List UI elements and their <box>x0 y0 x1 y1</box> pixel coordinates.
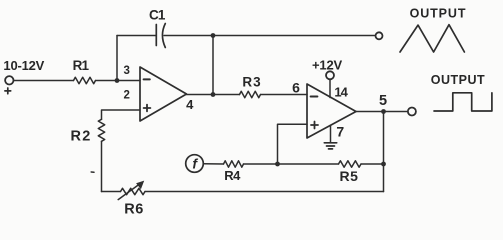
wire pin 7 to ground <box>330 125 332 143</box>
U2 inverting input minus <box>311 96 318 98</box>
R6 arrow <box>118 181 144 200</box>
ground <box>324 143 336 149</box>
svg-text:C1: C1 <box>149 8 166 23</box>
triangle waveform <box>400 25 464 52</box>
wire junction down to op-amp U1 output <box>212 36 214 95</box>
svg-text:5: 5 <box>379 93 387 109</box>
wire R1 to op-amp pin 3 <box>96 80 141 82</box>
svg-text:R2: R2 <box>71 129 92 145</box>
wire R2 down to bottom rail <box>101 141 103 191</box>
terminal: 10-12V input <box>5 76 13 84</box>
wire input terminal to R1 <box>14 80 74 82</box>
terminal: square wave output <box>408 108 416 116</box>
terminal: f frequency input <box>186 155 204 173</box>
terminal: triangle wave output <box>376 32 383 39</box>
svg-text:OUTPUT: OUTPUT <box>410 6 467 20</box>
node: R4/R5 junction <box>275 162 280 167</box>
svg-text:10-12V: 10-12V <box>3 58 44 73</box>
svg-text:OUTPUT: OUTPUT <box>431 73 485 87</box>
op-amp U1 <box>140 67 187 121</box>
node: R5 right junction <box>381 162 386 167</box>
svg-text:R5: R5 <box>340 168 359 184</box>
wire C1 to triangle output terminal <box>164 35 375 37</box>
wire feedback vertical riser <box>116 36 118 81</box>
node: pin 5 junction <box>381 109 386 114</box>
capacitor C1 <box>156 24 165 48</box>
resistor R3 <box>240 91 261 97</box>
wire bottom rail left <box>102 191 121 193</box>
wire junction up to U2 plus input <box>278 124 308 164</box>
U1 inverting input minus <box>144 78 150 80</box>
resistor R2 <box>98 119 104 141</box>
svg-text:R4: R4 <box>224 168 241 183</box>
resistor R4 <box>224 161 244 167</box>
wire feedback top to C1 <box>117 35 156 37</box>
node: feedback junction at pin 3 <box>115 78 120 83</box>
svg-text:R1: R1 <box>73 58 90 73</box>
terminal: +12V supply <box>326 71 334 79</box>
node: U1 output junction <box>211 92 216 97</box>
svg-text:f: f <box>192 156 198 172</box>
U1 non-inverting input plus <box>144 105 151 112</box>
svg-text:2: 2 <box>123 89 129 101</box>
op-amp U2 <box>307 84 356 138</box>
svg-text:4: 4 <box>186 97 194 112</box>
wire R5 to right riser <box>361 163 384 165</box>
svg-text:6: 6 <box>292 80 300 96</box>
wire right riser to pin 5 <box>383 112 385 192</box>
wire R3 to op-amp pin 6 <box>261 94 308 96</box>
wire bottom rail right <box>145 191 384 193</box>
wire U1 output to R3 <box>187 94 240 96</box>
svg-text:R3: R3 <box>242 74 261 89</box>
wire f to R4 <box>203 163 223 165</box>
wire R4 to junction <box>244 163 278 165</box>
potentiometer R6 <box>121 188 146 194</box>
svg-text:7: 7 <box>336 123 344 139</box>
svg-text:14: 14 <box>334 85 348 100</box>
resistor R1 <box>74 77 96 83</box>
polarity + under input terminal <box>5 88 11 94</box>
U2 non-inverting input plus <box>311 122 318 129</box>
wire U1 pin 2 input <box>102 110 141 119</box>
svg-text:+12V: +12V <box>312 57 342 72</box>
stray mark <box>91 171 94 173</box>
wire U2 output to square output terminal <box>356 111 408 113</box>
wire junction to R5 <box>278 163 339 165</box>
resistor R5 <box>339 161 362 167</box>
svg-text:R6: R6 <box>124 201 144 217</box>
svg-text:3: 3 <box>123 65 129 77</box>
square waveform <box>434 93 492 111</box>
wire +12V to pin 14 <box>329 79 331 97</box>
node: C1 right junction <box>211 33 216 38</box>
